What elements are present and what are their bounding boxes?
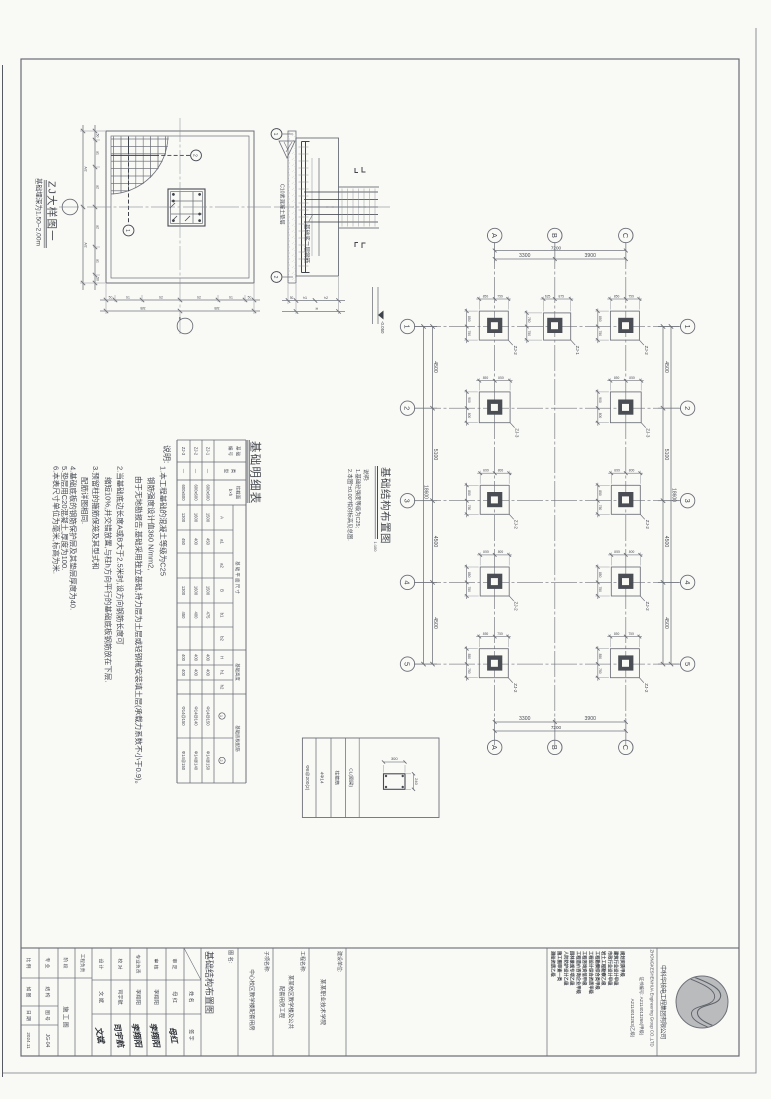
footing 4-C column [618,574,633,589]
svg-text:5: 5 [683,662,692,666]
svg-text:850: 850 [598,654,602,660]
svg-text:800: 800 [614,469,620,473]
svg-text:ZJ-2: ZJ-2 [645,602,650,612]
footing 1-C column [618,318,633,333]
footing 2-C bottom dimension [597,389,599,425]
svg-text:b2: b2 [197,296,201,300]
svg-text:4.基础底板的钢筋保护层及其垫层厚度为40.: 4.基础底板的钢筋保护层及其垫层厚度为40. [69,466,79,610]
footing 1-C pad [610,311,639,340]
plan left dimension chain [495,258,626,260]
svg-text:Φ14@140: Φ14@140 [194,706,199,726]
svg-text:h1: h1 [220,670,225,675]
svg-text:450: 450 [181,538,186,546]
svg-text:2: 2 [192,154,198,157]
svg-text:ZJ-3: ZJ-3 [646,428,651,438]
svg-text:类: 类 [230,469,237,474]
svg-text:750: 750 [467,505,471,511]
section centre line [274,206,390,208]
svg-text:3900: 3900 [585,716,597,722]
svg-text:400: 400 [194,612,199,620]
svg-text:规划资质甲级: 规划资质甲级 [619,951,626,977]
svg-text:施工图审查一类: 施工图审查一类 [556,951,563,982]
svg-text:由于无地勘报告,基础采用独立基础,持力层为土层或轻钢械安装填: 由于无地勘报告,基础采用独立基础,持力层为土层或轻钢械安装填土层(承载力系数不小… [134,476,144,788]
svg-text:750: 750 [628,294,634,298]
section slab bottom rebar [305,142,307,273]
footing 2-C column [618,400,633,415]
svg-text:ZJ-2: ZJ-2 [513,683,518,693]
svg-text:工程负责: 工程负责 [79,954,86,973]
footing detail inner square [111,136,249,278]
footing 5-A column [487,655,502,670]
svg-text:600x600: 600x600 [194,484,199,501]
svg-text:工程咨询资信甲级: 工程咨询资信甲级 [581,951,588,986]
svg-text:H: H [316,307,319,311]
svg-text:缩短10%,并交错放置,与柱h方向平行的基础底板钢筋放在下层: 缩短10%,并交错放置,与柱h方向平行的基础底板钢筋放在下层. [103,477,113,682]
footing 5-A pad [479,649,508,678]
svg-text:7200: 7200 [551,245,562,250]
section elevation marker [377,287,379,324]
svg-text:B/2: B/2 [214,307,219,311]
svg-text:a2: a2 [220,563,225,568]
footing 3-A left dimension [477,472,512,474]
svg-text:ZJ-2: ZJ-2 [514,602,519,612]
plan top bay dimensions [662,327,664,665]
svg-text:800: 800 [498,468,504,472]
svg-text:50: 50 [96,134,100,138]
svg-text:750: 750 [527,331,531,337]
svg-text:子项名称:: 子项名称: [263,951,270,972]
svg-text:基础明细表: 基础明细表 [249,441,263,505]
svg-text:2.当基础底边长度A或B大于2.5米时,设方向钢筋长度可: 2.当基础底边长度A或B大于2.5米时,设方向钢筋长度可 [116,466,126,645]
svg-text:Φ14@140: Φ14@140 [194,751,199,771]
svg-text:400: 400 [206,654,211,662]
footing 4-A pad [480,567,509,596]
footing 1-A column [487,318,502,333]
svg-text:基础底板配筋: 基础底板配筋 [234,725,241,752]
svg-text:1500: 1500 [206,586,211,596]
svg-text:1600: 1600 [194,513,199,523]
svg-text:ZJ-3: ZJ-3 [515,428,520,438]
svg-text:1: 1 [403,324,412,328]
section column rebar [304,191,378,193]
footing 1-A pad [479,311,508,340]
svg-text:h1: h1 [303,296,307,300]
svg-text:750: 750 [467,331,471,337]
svg-text:基 础 平 面 尺 寸: 基 础 平 面 尺 寸 [234,561,241,594]
footing 3-A pad [480,485,509,514]
svg-text:b2: b2 [220,636,225,641]
svg-text:800: 800 [629,468,635,472]
svg-text:Φ14@150: Φ14@150 [206,751,211,771]
svg-text:50: 50 [248,296,252,300]
svg-text:Φ14@150: Φ14@150 [181,751,186,771]
svg-text:800: 800 [498,550,504,554]
svg-text:基 础: 基 础 [235,446,242,457]
svg-text:400: 400 [194,538,199,546]
svg-text:ZJ-2: ZJ-2 [644,346,649,356]
rebar callout 2 bubble [191,150,202,161]
svg-text:7200: 7200 [551,725,562,730]
svg-text:3900: 3900 [585,253,597,259]
svg-text:ZJ-2: ZJ-2 [645,520,650,530]
footing 2-A bottom dimension [466,389,468,425]
footing 1-B column [547,318,562,333]
svg-text:850: 850 [629,376,635,380]
svg-text:1: 1 [683,324,692,328]
section slab distribution bar ticks [299,146,309,148]
svg-text:b1: b1 [229,296,233,300]
section rebar mark 2 bubble [271,272,282,283]
section rebar mark 1 bubble [271,129,282,140]
svg-text:850: 850 [467,572,471,578]
title block row lines [39,948,657,1056]
footing 2-C left dimension [607,380,643,382]
svg-text:4500: 4500 [432,536,438,548]
footing 4-A bottom dimension [466,565,468,600]
svg-text:钢筋强度设计值360 N/mm2,: 钢筋强度设计值360 N/mm2, [147,477,157,570]
svg-text:850: 850 [483,632,489,636]
section slab step line [318,158,320,256]
svg-text:A: A [490,233,499,238]
footing detail centre line horizontal [179,118,181,336]
svg-text:4500: 4500 [663,361,669,373]
svg-text:JG-04: JG-04 [44,1034,50,1048]
footing 5-C bottom dimension [597,646,599,681]
rebar dark bar vertical [111,154,159,156]
footing 1-C left dimension [607,298,642,300]
footing 4-C pad [611,567,640,596]
section cut triangle [279,141,295,158]
footing 3-A label [509,514,514,519]
footing 3-C column [618,492,633,507]
svg-text:中科华核电工程集团有限公司: 中科华核电工程集团有限公司 [659,965,667,1039]
svg-text:工程设计综合资质甲级: 工程设计综合资质甲级 [588,951,595,995]
svg-text:A: A [490,745,499,750]
footing 1-B pad [544,313,571,340]
svg-text:750: 750 [527,317,531,323]
svg-text:1300: 1300 [181,586,186,596]
footing 5-A label [508,678,513,683]
rebar dark bar horizontal [128,137,130,153]
svg-text:850: 850 [467,490,471,496]
svg-text:a1: a1 [220,539,225,544]
footing 2-A left dimension [476,380,512,382]
svg-text:3.预留柱的箍筋保笼及其型式和: 3.预留柱的箍筋保笼及其型式和 [91,466,101,570]
svg-text:ZJ大样图一: ZJ大样图一 [46,181,59,242]
svg-text:a2: a2 [96,185,100,189]
footing 3-C pad [611,485,640,514]
svg-text:450: 450 [181,612,186,620]
svg-text:ZJ-2: ZJ-2 [194,447,199,456]
svg-text:B: B [220,589,225,592]
footing 2-A pad [479,392,510,423]
svg-text:工程名称:: 工程名称: [299,951,306,972]
footing 4-C left dimension [608,554,643,556]
footing 4-A left dimension [477,554,512,556]
section slab inner line 2 [311,158,313,256]
svg-text:ZJ-2: ZJ-2 [514,520,519,530]
svg-text:证书编号: A2114013266(甲级): 证书编号: A2114013266(甲级) [638,977,645,1036]
svg-text:18600: 18600 [671,488,677,502]
svg-text:850: 850 [614,294,620,298]
svg-text:ZJ-1: ZJ-1 [206,447,211,456]
plan right total dimension 7200 [495,730,626,732]
column mini table width dimension 240 [413,774,415,790]
svg-text:ZJ-2: ZJ-2 [644,683,649,693]
footing 1-C label [639,340,644,345]
svg-text:800: 800 [629,550,635,554]
svg-text:姓 名: 姓 名 [188,991,195,1002]
svg-text:750: 750 [598,505,602,511]
svg-text:900: 900 [467,397,471,403]
svg-text:2024.11: 2024.11 [26,1032,31,1049]
plan axis bubbles left [488,228,633,242]
svg-text:ZJ-2: ZJ-2 [513,346,518,356]
footing 1-A bottom dimension [466,309,468,344]
footing 1-A left dimension [476,298,511,300]
footing detail right dimension chain [100,299,260,301]
footing 2-C pad [610,392,641,423]
svg-text:750: 750 [598,668,602,674]
column mini table section diagram [384,774,406,790]
svg-text:240: 240 [414,778,419,785]
footing 3-C label [640,514,645,519]
plan letter axis lines [495,243,626,747]
svg-text:600x600: 600x600 [181,484,186,501]
svg-text:850: 850 [467,316,471,322]
svg-text:50: 50 [96,277,100,281]
svg-text:4500: 4500 [432,361,438,373]
plan axis bubbles bottom [400,319,414,671]
plan bottom total dimension 18600 [423,327,425,665]
svg-text:Φ14@150: Φ14@150 [206,706,211,726]
svg-text:800: 800 [483,550,489,554]
plan numbered axis lines [415,327,679,665]
rebar callout 2 leader [161,154,190,156]
svg-text:850: 850 [483,294,489,298]
svg-text:850: 850 [598,316,602,322]
svg-text:岩土工程勘察乙级: 岩土工程勘察乙级 [600,951,607,986]
svg-text:4500: 4500 [663,617,669,629]
footing 5-A left dimension [476,636,511,638]
svg-text:850: 850 [614,376,620,380]
column mini table grid [302,738,439,818]
svg-text:B: B [550,233,559,238]
svg-text:2: 2 [272,276,278,279]
schedule table grid [177,440,246,783]
svg-text:测绘资质乙级: 测绘资质乙级 [550,951,557,977]
footing 3-A bottom dimension [466,483,468,518]
svg-text:B: B [550,745,559,750]
title block left border [21,947,739,949]
svg-text:300: 300 [391,756,398,761]
footing detail bottom dimension chain [94,125,96,290]
plan left total dimension 7200 [495,250,626,252]
section height dimension chain [282,300,345,302]
svg-text:18600: 18600 [423,485,429,499]
svg-text:市政行业设计甲级: 市政行业设计甲级 [606,951,613,986]
svg-text:Φ14@150: Φ14@150 [181,706,186,726]
rebar callout 1 bubble [123,225,134,236]
svg-text:1300: 1300 [181,513,186,523]
footing 4-A label [509,596,514,601]
svg-text:签 字: 签 字 [188,1029,195,1040]
svg-text:4500: 4500 [432,617,438,629]
svg-text:400: 400 [194,654,199,662]
svg-text:5: 5 [403,662,412,666]
svg-text:5100: 5100 [663,449,669,461]
svg-text:400: 400 [206,669,211,677]
svg-text:园林景观专项乙级: 园林景观专项乙级 [569,951,576,986]
section footing slab outline [296,138,339,276]
svg-text:A2114013263(乙级): A2114013263(乙级) [629,999,636,1038]
footing 3-C left dimension [608,472,643,474]
title block column lines [21,978,201,1025]
footing detail rebar grid corner [111,137,173,197]
svg-text:1500: 1500 [206,513,211,523]
svg-text:750: 750 [497,632,503,636]
title block diagonal [184,948,201,980]
plan axis bubbles right [488,740,633,754]
svg-text:b2: b2 [159,296,163,300]
svg-text:1600: 1600 [194,586,199,596]
svg-text:850: 850 [467,654,471,660]
section column hoops [374,189,376,227]
svg-text:750: 750 [628,632,634,636]
plan right dimension chain [495,721,626,723]
footing 2-A column [487,400,502,415]
svg-text:A/2: A/2 [84,166,88,171]
footing 5-A bottom dimension [466,646,468,681]
svg-text:850: 850 [483,376,489,380]
footing 5-C column [618,655,633,670]
svg-text:600x600: 600x600 [206,484,211,501]
footing 4-C bottom dimension [597,565,599,600]
svg-text:建设单位:: 建设单位: [336,951,343,972]
footing 3-A column [487,492,502,507]
svg-text:A/2: A/2 [84,242,88,247]
footing detail axis bubble bottom [62,199,78,215]
svg-text:B/2: B/2 [140,307,145,311]
svg-text:b×h: b×h [228,489,233,497]
svg-text:400: 400 [194,669,199,677]
footing 5-C label [639,678,644,683]
svg-text:ZHONGKESHENHUA Engineering Gro: ZHONGKESHENHUA Engineering Group CO.,LTD [650,949,655,1046]
plan axis bubbles top [680,319,694,671]
svg-text:450: 450 [206,538,211,546]
svg-text:柱截面: 柱截面 [235,486,242,500]
svg-text:800: 800 [467,413,471,419]
svg-text:750: 750 [598,331,602,337]
svg-text:工程造价咨询企业甲级: 工程造价咨询企业甲级 [575,951,582,995]
section lean concrete bedding [288,131,296,283]
rebar grid arc boundary [111,137,168,195]
svg-text:3300: 3300 [519,716,531,722]
svg-text:h2: h2 [324,296,328,300]
svg-text:b1: b1 [126,296,130,300]
svg-text:400: 400 [181,669,186,677]
footing 5-C left dimension [607,636,642,638]
rebar callout 1 leader [128,150,130,224]
svg-text:4: 4 [403,580,412,584]
svg-text:A: A [220,516,225,519]
svg-text:3: 3 [403,499,412,503]
svg-text:C: C [621,233,630,239]
footing detail axis bubble right [177,318,193,334]
svg-text:850: 850 [614,632,620,636]
svg-text:人防防护设计乙级: 人防防护设计乙级 [562,950,569,986]
svg-text:-0.050: -0.050 [380,321,385,334]
section column outline [339,186,380,188]
svg-text:2: 2 [403,406,412,410]
footing 4-A column [487,574,502,589]
svg-text:800: 800 [598,413,602,419]
svg-text:900: 900 [598,397,602,403]
footing 5-C pad [610,649,639,678]
company logo [676,976,728,1028]
footing detail centre line vertical [59,206,271,208]
footing 2-C label [641,423,646,428]
svg-text:编 号: 编 号 [227,446,234,457]
svg-text:875: 875 [558,294,564,298]
svg-text:H: H [220,656,225,659]
footing 1-B label [571,340,576,345]
svg-text:5100: 5100 [432,449,438,461]
footing 1-C bottom dimension [597,309,599,344]
svg-text:b1: b1 [220,613,225,618]
svg-text:基础结构布置图: 基础结构布置图 [204,951,215,1014]
svg-text:50: 50 [109,296,113,300]
svg-text:ZJ-3: ZJ-3 [181,447,186,456]
plan bottom bay dimensions [432,327,434,665]
svg-text:1.本工程基础的混凝土等级为C25: 1.本工程基础的混凝土等级为C25 [159,466,169,576]
svg-text:850: 850 [598,572,602,578]
footing 1-B left dimension [541,298,574,300]
svg-text:1:100: 1:100 [373,542,378,553]
svg-text:说明:: 说明: [162,445,172,463]
svg-text:400: 400 [181,654,186,662]
svg-text:ZJ-1: ZJ-1 [575,346,580,356]
footing detail outer square [106,131,254,283]
svg-text:6.本表尺寸单位为毫米,标高为米.: 6.本表尺寸单位为毫米,标高为米. [51,466,61,574]
svg-text:750: 750 [467,668,471,674]
svg-text:1: 1 [272,133,278,136]
svg-text:基础高度: 基础高度 [234,663,241,681]
section insert bar hooks right [362,243,366,248]
footing 4-C label [640,596,645,601]
svg-text:4500: 4500 [663,536,669,548]
plan axis extension stubs [414,242,681,741]
svg-text:3: 3 [683,499,692,503]
svg-text:工程勘察综合类甲级: 工程勘察综合类甲级 [594,951,601,990]
svg-text:4: 4 [683,580,692,584]
column section in footing detail [168,189,205,226]
footing 1-B bottom dimension [526,310,528,343]
svg-text:850: 850 [598,490,602,496]
column mini table height dimension 300 [384,761,406,763]
svg-text:a2: a2 [96,225,100,229]
section insert bar hooks left [362,167,366,172]
footing 3-C bottom dimension [597,483,599,518]
svg-text:50: 50 [290,296,294,300]
svg-text:850: 850 [498,376,504,380]
svg-text:a1: a1 [96,151,100,155]
svg-text:750: 750 [598,586,602,592]
svg-text:基础结构布置图: 基础结构布置图 [379,467,392,544]
svg-text:475: 475 [206,612,211,620]
svg-text:5.垫层用C20混凝土,厚度为100.: 5.垫层用C20混凝土,厚度为100. [60,466,70,570]
svg-text:h2: h2 [220,685,225,690]
